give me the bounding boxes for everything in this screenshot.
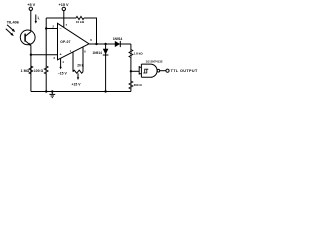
svg-text:3: 3: [53, 56, 55, 60]
phototransistor Q1 TIL406: [20, 30, 35, 45]
resistor R1 1 MΩ: [29, 66, 33, 74]
wire pin3: [31, 54, 58, 56]
svg-text:8: 8: [84, 50, 86, 53]
svg-text:4: 4: [62, 60, 64, 64]
svg-text:TIL406: TIL406: [7, 21, 19, 25]
wire feedback top: [46, 18, 96, 44]
svg-text:OP-07: OP-07: [60, 40, 71, 44]
resistor R3 10 kΩ: [76, 16, 84, 19]
node rail 100Ω: [45, 90, 47, 92]
hysteresis symbol: [143, 69, 148, 73]
light arrow 2: [6, 29, 12, 35]
svg-text:1N914: 1N914: [92, 51, 102, 55]
wire emitter down: [30, 45, 32, 91]
terminal +5V: [29, 7, 32, 10]
svg-text:+15 V: +15 V: [72, 82, 82, 86]
pot wiper to +15V: [77, 73, 79, 78]
svg-text:−15 V: −15 V: [58, 71, 68, 75]
node emitter junction: [30, 54, 32, 56]
node feedback junction: [95, 43, 97, 45]
light arrow 1: [7, 25, 14, 31]
wire output: [89, 43, 131, 45]
resistor R2 100Ω: [45, 18, 47, 92]
terminal TTL output: [166, 69, 169, 72]
svg-text:100 Ω: 100 Ω: [34, 69, 44, 73]
diode D2 1N914 series: [115, 41, 120, 47]
resistor R5 300 Ω: [129, 81, 133, 89]
diode D1 1N914 clamp: [105, 44, 107, 92]
svg-text:TTL OUTPUT: TTL OUTPUT: [171, 69, 198, 73]
svg-text:−: −: [60, 27, 62, 31]
svg-text:6: 6: [90, 38, 92, 42]
current arrow IL: [35, 15, 37, 22]
wire gate input: [131, 70, 139, 72]
gate U2 SN74132 schmitt NAND: [138, 66, 140, 75]
svg-text:IL: IL: [38, 16, 41, 21]
wire +15V to pin7: [63, 11, 65, 28]
offset pot stubs pins 1 and 8: [73, 47, 83, 72]
gate output bubble: [157, 69, 160, 72]
wire bottom rail: [31, 91, 131, 93]
pin 4 stub: [60, 58, 62, 67]
svg-text:+15 V: +15 V: [58, 3, 68, 7]
op-amp U1 OP-07: [58, 23, 90, 60]
terminal +15V: [62, 7, 65, 10]
wire pin2: [46, 28, 57, 30]
svg-text:1/2 SN74132: 1/2 SN74132: [146, 60, 163, 64]
svg-text:10 kΩ: 10 kΩ: [76, 20, 85, 24]
node gate input junction: [130, 70, 132, 72]
node pin2 junction: [45, 27, 47, 29]
svg-text:7: 7: [66, 23, 68, 27]
node rail ground: [51, 90, 53, 92]
svg-text:20 K: 20 K: [77, 63, 84, 67]
svg-text:300 Ω: 300 Ω: [134, 83, 143, 87]
wire +5V to collector: [30, 11, 32, 32]
svg-text:1 MΩ: 1 MΩ: [21, 69, 30, 73]
svg-text:+5 V: +5 V: [27, 3, 35, 7]
svg-text:1.8 kΩ: 1.8 kΩ: [134, 52, 144, 56]
potentiometer 20K: [73, 70, 83, 73]
svg-text:+: +: [60, 53, 62, 57]
node rail clamp: [104, 90, 106, 92]
svg-text:1N914: 1N914: [113, 37, 123, 41]
wire gate output: [160, 70, 166, 72]
ground: [49, 92, 55, 98]
node clamp junction: [104, 43, 106, 45]
resistor R4 1.8 kΩ: [130, 44, 132, 92]
